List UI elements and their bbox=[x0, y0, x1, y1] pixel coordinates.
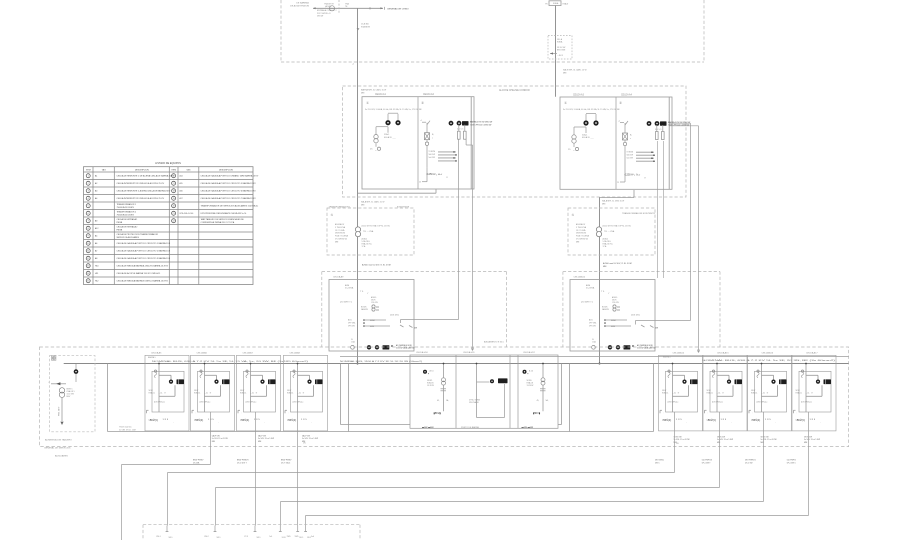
svg-text:MM: MM bbox=[603, 266, 607, 268]
svg-text:A9: A9 bbox=[95, 220, 97, 223]
svg-text:15: 15 bbox=[87, 281, 89, 283]
svg-text:CELDA DE PROTECCION TRANSFORMA: CELDA DE PROTECCION TRANSFORMADOR bbox=[117, 233, 159, 236]
svg-text:H10: H10 bbox=[95, 266, 98, 268]
svg-text:14: 14 bbox=[87, 273, 89, 275]
svg-text:BARRA 5: BARRA 5 bbox=[148, 356, 156, 359]
svg-text:MM: MM bbox=[602, 203, 606, 205]
svg-text:5W KVA-5K: 5W KVA-5K bbox=[469, 401, 480, 404]
svg-text:A3: A3 bbox=[95, 190, 97, 193]
svg-text:PB/SB: PB/SB bbox=[117, 222, 123, 224]
svg-text:5ALP 5W: 5ALP 5W bbox=[212, 435, 220, 438]
svg-text:A8: A8 bbox=[95, 257, 97, 260]
svg-text:5x 5/5L 15 at 5 KW: 5x 5/5L 15 at 5 KW bbox=[302, 437, 318, 440]
svg-text:2: 2 bbox=[88, 183, 89, 185]
svg-text:9: 9 bbox=[88, 236, 89, 238]
svg-text:CELDA A1: CELDA A1 bbox=[375, 93, 387, 96]
svg-text:BKW PWKV: BKW PWKV bbox=[193, 460, 204, 462]
svg-text:5KL5: 5KL5 bbox=[282, 537, 286, 539]
svg-text:5ALP 5W: 5ALP 5W bbox=[302, 435, 310, 438]
svg-text:CT-3: CT-3 bbox=[244, 536, 248, 538]
svg-text:5KL5: 5KL5 bbox=[257, 537, 261, 539]
svg-text:A7000 mod 5L 5KV, 7L KL 5 KM: A7000 mod 5L 5KV, 7L KL 5 KM bbox=[362, 264, 391, 267]
svg-text:CORRIENTE ALTERNA 220 / 127 VC: CORRIENTE ALTERNA 220 / 127 VCA bbox=[201, 221, 235, 224]
svg-text:5KL5: 5KL5 bbox=[299, 537, 303, 539]
svg-text:CELDA A5: CELDA A5 bbox=[151, 351, 162, 354]
svg-text:5KV PWKV1: 5KV PWKV1 bbox=[745, 460, 756, 462]
svg-text:CELDA H10: CELDA H10 bbox=[416, 351, 429, 354]
svg-text:SERVICIOS AUXILIARES: SERVICIOS AUXILIARES bbox=[117, 236, 140, 239]
svg-text:MM: MM bbox=[804, 442, 808, 444]
svg-text:TRANSFORMADOR 1: TRANSFORMADOR 1 bbox=[329, 205, 352, 208]
svg-text:5W 5: 5W 5 bbox=[655, 462, 659, 464]
svg-text:A15: A15 bbox=[180, 182, 183, 185]
svg-text:11: 11 bbox=[87, 251, 89, 253]
svg-text:CELDA H12: CELDA H12 bbox=[523, 351, 536, 354]
svg-text:22: 22 bbox=[173, 221, 175, 223]
svg-text:7: 7 bbox=[88, 221, 89, 223]
svg-text:AUXILIARES: AUXILIARES bbox=[55, 455, 68, 458]
svg-text:3: 3 bbox=[88, 191, 89, 193]
svg-text:CELDA INTERRUPTOR CMD-B DE ACO: CELDA INTERRUPTOR CMD-B DE ACOPLE 25 KV bbox=[117, 182, 165, 185]
svg-text:DE BARRAS: DE BARRAS bbox=[296, 2, 309, 5]
svg-text:CELDA DE MEDIDA BARRA B CMH-13: CELDA DE MEDIDA BARRA B CMH-13 BARRA 13.… bbox=[117, 280, 169, 283]
svg-text:CELDA A4: CELDA A4 bbox=[621, 93, 633, 96]
svg-text:CELDA DE ENTRADA 2: CELDA DE ENTRADA 2 bbox=[117, 226, 138, 229]
svg-text:8: 8 bbox=[88, 228, 89, 230]
svg-text:CELDA DE ACOPLE BARRA 13.8 KV: CELDA DE ACOPLE BARRA 13.8 KV CMD-H11 bbox=[117, 272, 162, 275]
svg-text:6: 6 bbox=[88, 213, 89, 215]
svg-text:ITEM: ITEM bbox=[171, 170, 176, 172]
svg-text:PB/SB: PB/SB bbox=[117, 229, 123, 231]
svg-text:18: 18 bbox=[173, 191, 175, 193]
svg-text:PUNTO DE BARRA: PUNTO DE BARRA bbox=[461, 426, 479, 429]
svg-text:5x4: 5x4 bbox=[311, 536, 314, 538]
svg-text:5ALP 5W: 5ALP 5W bbox=[258, 435, 266, 438]
svg-text:NOMINAL BUS, 630 A 7.2 KV 5L 5: NOMINAL BUS, 630 A 7.2 KV 5L 5x 3F, 20 3… bbox=[702, 359, 836, 362]
svg-text:5: 5 bbox=[88, 206, 89, 208]
svg-text:BKW PWKV3: BKW PWKV3 bbox=[237, 460, 248, 462]
svg-text:16: 16 bbox=[173, 176, 175, 178]
svg-text:—KV-5: —KV-5 bbox=[557, 55, 563, 57]
svg-text:CM-1: CM-1 bbox=[156, 536, 161, 538]
svg-text:TRANSFORMADOR 2: TRANSFORMADOR 2 bbox=[117, 211, 136, 214]
svg-text:SALE MPL 3L CARL 15 W: SALE MPL 3L CARL 15 W bbox=[563, 69, 587, 72]
svg-text:A5: A5 bbox=[95, 235, 97, 238]
svg-text:TAG: TAG bbox=[186, 169, 190, 172]
svg-text:DT-T 5W-5: DT-T 5W-5 bbox=[281, 462, 290, 464]
svg-text:GENERADOR CHINO: GENERADOR CHINO bbox=[387, 7, 409, 10]
svg-text:KVA A´: KVA A´ bbox=[563, 3, 569, 6]
svg-text:TXXX mod 5kv: TXXX mod 5kv bbox=[119, 427, 132, 429]
svg-text:21: 21 bbox=[173, 213, 175, 215]
svg-text:CELDA DE REMONTE 1 DE ACERA CM: CELDA DE REMONTE 1 DE ACERA CMD-A DE BAR… bbox=[117, 175, 175, 178]
svg-text:LISTADO DE EQUIPOS: LISTADO DE EQUIPOS bbox=[155, 162, 181, 165]
svg-text:A4: A4 bbox=[95, 197, 97, 200]
svg-text:5W5: 5W5 bbox=[295, 536, 299, 538]
svg-text:A12: A12 bbox=[95, 227, 98, 230]
svg-text:CELDA DE SALIDA A PORTICO CIRC: CELDA DE SALIDA A PORTICO CIRCUITO 1 BAR… bbox=[117, 242, 171, 245]
svg-text:CELDA DE SALIDA A PORTICO CIRC: CELDA DE SALIDA A PORTICO CIRCUITO 6 BAR… bbox=[201, 190, 257, 193]
svg-text:CELDA DE SALIDA A PORTICO CIRC: CELDA DE SALIDA A PORTICO CIRCUITO 3 BAR… bbox=[117, 257, 171, 260]
svg-text:UPS PRINCIPAL REDUNDANTE 50KVA: UPS PRINCIPAL REDUNDANTE 50KVA 5W 5x 5L bbox=[201, 212, 248, 215]
svg-text:(A 5W ): (A 5W ) bbox=[325, 5, 332, 8]
svg-text:20: 20 bbox=[173, 206, 175, 208]
svg-text:CELDA A9: CELDA A9 bbox=[333, 276, 344, 279]
svg-text:5L 53N. M CU. 15M: 5L 53N. M CU. 15M bbox=[119, 429, 136, 431]
svg-text:5F-1 5W T: 5F-1 5W T bbox=[702, 462, 712, 464]
svg-text:ALCOVE CHELSIE CONDOR: ALCOVE CHELSIE CONDOR bbox=[499, 89, 530, 92]
svg-text:TRA DE TE: TRA DE TE bbox=[324, 3, 334, 6]
svg-text:PRE. BKV: PRE. BKV bbox=[59, 406, 61, 416]
svg-text:ALIMENTACION TABLERO: ALIMENTACION TABLERO bbox=[45, 439, 72, 442]
svg-text:CELDA A17: CELDA A17 bbox=[806, 351, 818, 354]
svg-text:7500KVA 25/13.8KV: 7500KVA 25/13.8KV bbox=[117, 213, 135, 216]
svg-text:DT-1ML: DT-1ML bbox=[193, 462, 200, 464]
svg-text:CELDA DE SALIDA A PORTICO URBA: CELDA DE SALIDA A PORTICO URBANO 5MW BAR… bbox=[201, 175, 259, 178]
svg-text:A1: A1 bbox=[95, 175, 97, 178]
svg-text:5KV5 5W: 5KV5 5W bbox=[717, 437, 725, 439]
svg-text:5KL A: 5KL A bbox=[557, 38, 563, 41]
svg-text:H11: H11 bbox=[95, 273, 98, 275]
svg-text:CELDA A2: CELDA A2 bbox=[423, 93, 435, 96]
svg-text:CELDA H11: CELDA H11 bbox=[463, 351, 475, 354]
svg-text:15 A 360: 15 A 360 bbox=[361, 23, 370, 26]
svg-text:CELDA DE MEDIDA BARRA A CMD-H1: CELDA DE MEDIDA BARRA A CMD-H1 BARRA 13.… bbox=[117, 265, 169, 268]
svg-text:A17: A17 bbox=[180, 197, 183, 200]
svg-text:A14: A14 bbox=[180, 175, 183, 178]
svg-text:ENTRADA CONDUIT 2: ENTRADA CONDUIT 2 bbox=[317, 9, 337, 12]
svg-text:MM: MM bbox=[258, 441, 262, 443]
svg-text:A2: A2 bbox=[95, 182, 97, 185]
svg-text:CELDA A14: CELDA A14 bbox=[673, 351, 685, 354]
svg-text:CELDA A6: CELDA A6 bbox=[197, 351, 208, 354]
svg-text:MM: MM bbox=[212, 441, 216, 443]
svg-text:13: 13 bbox=[87, 266, 89, 268]
svg-text:CELDA A8: CELDA A8 bbox=[290, 351, 301, 354]
svg-text:5W 5W: 5W 5W bbox=[317, 15, 323, 17]
svg-text:BKV 5KM: BKV 5KM bbox=[557, 50, 566, 52]
svg-text:5W5: 5W5 bbox=[287, 536, 291, 538]
svg-text:CELDA DE SALIDA A PORTICO CIRC: CELDA DE SALIDA A PORTICO CIRCUITO 5 BAR… bbox=[201, 182, 257, 185]
svg-text:ITEM: ITEM bbox=[86, 170, 91, 172]
svg-text:1: 1 bbox=[88, 176, 89, 178]
svg-text:NOMINAL BUS, 630 A 7.2 KV 5L 5: NOMINAL BUS, 630 A 7.2 KV 5L 5x 3F, 5L 1… bbox=[152, 360, 309, 363]
svg-text:5KL5: 5KL5 bbox=[217, 537, 221, 539]
svg-text:SALA MPL 3L CARL 15 W: SALA MPL 3L CARL 15 W bbox=[361, 201, 384, 204]
svg-text:DT-1 5KV T: DT-1 5KV T bbox=[237, 462, 248, 464]
svg-text:5KL5: 5KL5 bbox=[169, 537, 173, 539]
svg-text:EXISTENTE: EXISTENTE bbox=[397, 206, 410, 208]
svg-text:BARRA 5: BARRA 5 bbox=[663, 356, 671, 359]
svg-text:5KV5 5W: 5KV5 5W bbox=[804, 437, 812, 439]
svg-text:GENERAL DE SERVICIOS: GENERAL DE SERVICIOS bbox=[44, 447, 71, 450]
svg-text:KVA BKW: KVA BKW bbox=[361, 25, 370, 28]
svg-text:UPS+20K+1/+500: UPS+20K+1/+500 bbox=[180, 213, 194, 215]
svg-text:5x 5/5L 15 at 5 KW: 5x 5/5L 15 at 5 KW bbox=[212, 437, 228, 440]
svg-text:CM-2: CM-2 bbox=[204, 536, 209, 538]
svg-text:5x0 PWKV3: 5x0 PWKV3 bbox=[702, 460, 712, 462]
svg-text:5x 5/5L 15 at 5 KW: 5x 5/5L 15 at 5 KW bbox=[804, 438, 820, 441]
svg-text:A6: A6 bbox=[95, 242, 97, 245]
svg-text:10: 10 bbox=[87, 243, 89, 245]
svg-text:19: 19 bbox=[173, 198, 175, 200]
svg-text:CELDA A15: CELDA A15 bbox=[717, 351, 729, 354]
svg-text:5KV 5W5L: 5KV 5W5L bbox=[655, 460, 664, 462]
svg-text:DESCRIPCION: DESCRIPCION bbox=[219, 170, 233, 172]
svg-text:5F-1 5W 5: 5F-1 5W 5 bbox=[787, 462, 796, 464]
svg-text:MM: MM bbox=[717, 442, 721, 444]
svg-text:17: 17 bbox=[173, 183, 175, 185]
svg-text:A16: A16 bbox=[180, 190, 183, 193]
svg-text:5x0 PWKV: 5x0 PWKV bbox=[787, 460, 797, 462]
svg-text:CELDA DE ENTRADA 1: CELDA DE ENTRADA 1 bbox=[117, 218, 138, 221]
svg-text:MM: MM bbox=[361, 204, 365, 206]
svg-text:7500KVA 25/13.8KV: 7500KVA 25/13.8KV bbox=[117, 206, 135, 209]
svg-text:TAG: TAG bbox=[102, 169, 106, 172]
svg-text:CELDA INTERRUPTOR CMD-B DE ACO: CELDA INTERRUPTOR CMD-B DE ACOPLE 25 KV bbox=[117, 197, 165, 200]
svg-text:A7: A7 bbox=[95, 250, 97, 253]
svg-text:5x 5/5L 15 at 5 KW: 5x 5/5L 15 at 5 KW bbox=[761, 438, 777, 441]
svg-text:A7000 mod 5L 5KV, 7L KL 5 KM: A7000 mod 5L 5KV, 7L KL 5 KM bbox=[603, 262, 632, 265]
svg-text:5YNC 5WKB: 5YNC 5WKB bbox=[469, 400, 481, 402]
svg-text:AISLAMIENTO E 35.5: AISLAMIENTO E 35.5 bbox=[484, 341, 505, 344]
svg-text:TRANSFORMADOR EXISTENTE: TRANSFORMADOR EXISTENTE bbox=[622, 212, 655, 215]
svg-text:+1: +1 bbox=[352, 64, 354, 66]
svg-text:5x1: 5x1 bbox=[269, 536, 272, 538]
svg-text:12: 12 bbox=[87, 258, 89, 260]
svg-text:TRANSFORMADOR DE SERVICIOS AUX: TRANSFORMADOR DE SERVICIOS AUXILIARES 15… bbox=[201, 205, 259, 208]
svg-text:CELDA DE SALIDA A PORTICO CIRC: CELDA DE SALIDA A PORTICO CIRCUITO 2 BAR… bbox=[117, 250, 171, 253]
svg-text:4: 4 bbox=[88, 198, 89, 200]
svg-text:CELDA A12: CELDA A12 bbox=[574, 276, 586, 279]
svg-text:DT-1 5W: DT-1 5W bbox=[745, 462, 753, 464]
svg-text:CELDA DE SALIDA A PORTICO CIRC: CELDA DE SALIDA A PORTICO CIRCUITO 7 BAR… bbox=[201, 197, 257, 200]
svg-text:MM: MM bbox=[563, 72, 567, 74]
svg-text:CELDA A7: CELDA A7 bbox=[243, 351, 254, 354]
svg-text:TABP TABLERO DE SERVICIO ESENC: TABP TABLERO DE SERVICIO ESENCIALES DE bbox=[201, 218, 245, 221]
svg-text:TRANSFORMADOR 1: TRANSFORMADOR 1 bbox=[117, 203, 136, 206]
svg-text:KVA A: KVA A bbox=[557, 41, 563, 44]
svg-text:BKW PWKV: BKW PWKV bbox=[281, 460, 292, 462]
svg-text:H12: H12 bbox=[95, 281, 98, 283]
svg-text:MM: MM bbox=[361, 92, 365, 94]
svg-text:CELDA A16: CELDA A16 bbox=[762, 351, 774, 354]
svg-text:5x 5/5L 15 at 5 KW: 5x 5/5L 15 at 5 KW bbox=[674, 438, 690, 441]
svg-text:KVA A: KVA A bbox=[553, 2, 559, 5]
svg-text:SALA MPL 3L 5W5 15 W: SALA MPL 3L 5W5 15 W bbox=[602, 200, 624, 203]
svg-text:5KV5 5W: 5KV5 5W bbox=[761, 437, 769, 439]
svg-text:DESCRIPCION: DESCRIPCION bbox=[135, 170, 149, 172]
svg-text:CELDA A3: CELDA A3 bbox=[573, 93, 585, 96]
svg-text:DE ALTA TENSION: DE ALTA TENSION bbox=[290, 5, 309, 8]
svg-text:5x 5/5L 15 at 5 KW: 5x 5/5L 15 at 5 KW bbox=[258, 437, 274, 440]
svg-text:BARRA MPL 3L CARL 15 W: BARRA MPL 3L CARL 15 W bbox=[361, 89, 386, 92]
svg-text:CELDA DE REMONTE 2 ACERA CMD-A: CELDA DE REMONTE 2 ACERA CMD-A DE BARRA … bbox=[117, 190, 171, 193]
